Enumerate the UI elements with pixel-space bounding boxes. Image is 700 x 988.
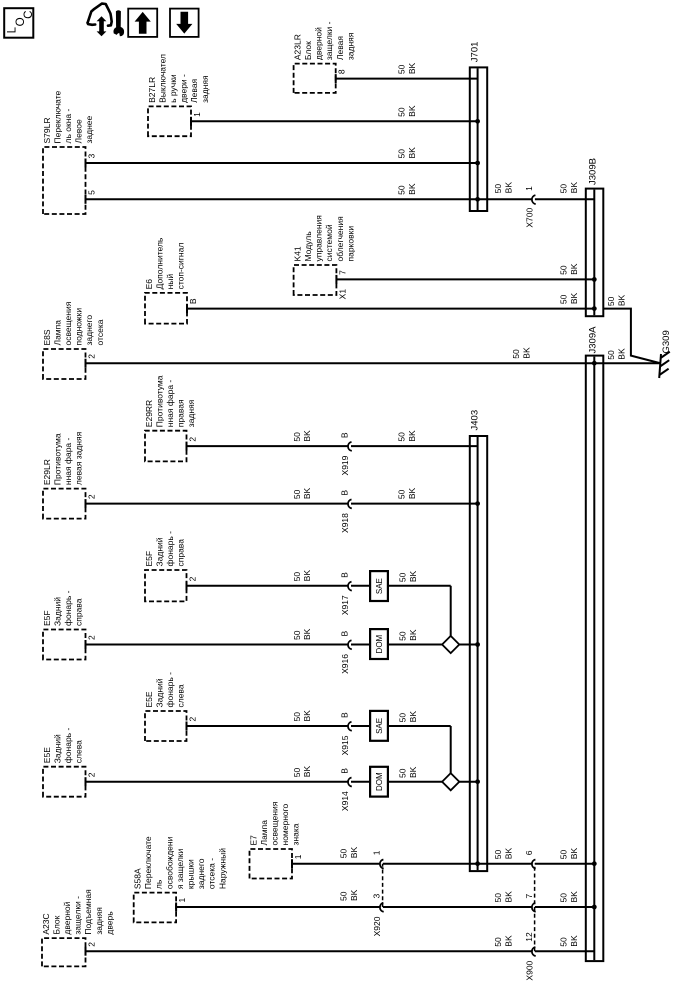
svg-text:50: 50 (493, 849, 503, 859)
svg-text:2: 2 (188, 437, 198, 442)
svg-text:Блок: Блок (303, 41, 313, 60)
svg-text:Противотума: Противотума (154, 375, 164, 427)
svg-text:BK: BK (569, 182, 579, 194)
svg-text:задняя: задняя (186, 399, 196, 427)
svg-text:50: 50 (397, 489, 407, 499)
svg-text:X919: X919 (340, 455, 350, 475)
svg-text:X920: X920 (372, 916, 382, 936)
svg-text:50: 50 (559, 184, 569, 194)
svg-text:3: 3 (87, 154, 97, 159)
svg-text:подножки: подножки (74, 308, 84, 346)
svg-text:Выключател: Выключател (157, 54, 167, 103)
svg-text:7: 7 (337, 270, 347, 275)
svg-text:BK: BK (408, 711, 418, 723)
svg-text:Задний: Задний (52, 734, 62, 763)
svg-text:B: B (188, 298, 198, 304)
svg-text:50: 50 (397, 107, 407, 117)
svg-text:фонарь -: фонарь - (63, 590, 73, 626)
svg-text:J309A: J309A (587, 326, 598, 354)
svg-text:ь ручки: ь ручки (168, 74, 178, 103)
svg-text:BK: BK (504, 891, 514, 903)
svg-text:задняя: задняя (345, 32, 355, 60)
svg-text:2: 2 (87, 354, 97, 359)
svg-text:50: 50 (559, 893, 569, 903)
svg-text:BK: BK (302, 766, 312, 778)
svg-text:нная фара -: нная фара - (165, 380, 175, 428)
svg-text:X915: X915 (340, 735, 350, 755)
svg-text:справа: справа (176, 539, 186, 567)
svg-text:SAE: SAE (375, 718, 384, 734)
svg-text:G309: G309 (661, 330, 672, 353)
svg-text:BK: BK (302, 710, 312, 722)
svg-text:50: 50 (339, 848, 349, 858)
svg-text:BK: BK (302, 570, 312, 582)
svg-text:6: 6 (524, 850, 534, 855)
svg-text:дверной: дверной (62, 901, 72, 934)
svg-text:фонарь -: фонарь - (165, 531, 175, 567)
svg-text:E29LR: E29LR (42, 459, 52, 485)
svg-text:Наружный: Наружный (217, 848, 227, 889)
svg-text:BK: BK (616, 348, 626, 360)
svg-text:Переключате: Переключате (143, 836, 153, 889)
svg-text:50: 50 (292, 432, 302, 442)
svg-text:левая задняя: левая задняя (74, 431, 84, 485)
svg-text:BK: BK (408, 570, 418, 582)
svg-text:управления: управления (314, 215, 324, 262)
svg-text:50: 50 (559, 937, 569, 947)
svg-text:DOM: DOM (375, 634, 384, 653)
svg-text:DOM: DOM (375, 772, 384, 791)
svg-text:50: 50 (292, 712, 302, 722)
svg-text:BK: BK (616, 294, 626, 306)
svg-text:я защелки: я защелки (175, 848, 185, 889)
svg-text:BK: BK (302, 628, 312, 640)
svg-text:50: 50 (397, 64, 407, 74)
svg-text:E5E: E5E (144, 691, 154, 707)
svg-text:слева: слева (176, 684, 186, 707)
svg-text:8: 8 (337, 69, 347, 74)
svg-text:1: 1 (177, 898, 187, 903)
svg-text:заднего: заднего (196, 858, 206, 889)
svg-text:S79LR: S79LR (42, 118, 52, 144)
svg-text:Лампа: Лампа (52, 320, 62, 346)
svg-text:50: 50 (397, 572, 407, 582)
svg-text:X900: X900 (524, 960, 534, 980)
svg-text:B27LR: B27LR (147, 77, 157, 103)
svg-text:J309B: J309B (587, 158, 598, 185)
svg-text:50: 50 (606, 296, 616, 306)
svg-text:Задний: Задний (154, 678, 164, 707)
svg-text:B: B (340, 432, 350, 438)
svg-text:50: 50 (292, 767, 302, 777)
svg-text:крышки: крышки (186, 859, 196, 889)
svg-text:ль: ль (154, 879, 164, 889)
svg-text:2: 2 (87, 772, 97, 777)
svg-text:задняя: задняя (94, 907, 104, 935)
svg-text:освобождени: освобождени (164, 836, 174, 889)
svg-text:2: 2 (87, 635, 97, 640)
svg-text:K41: K41 (292, 246, 302, 261)
svg-text:заднее: заднее (84, 115, 94, 143)
svg-text:B: B (340, 490, 350, 496)
svg-text:2: 2 (188, 576, 198, 581)
svg-text:ль окна -: ль окна - (63, 109, 73, 144)
svg-text:E5F: E5F (144, 551, 154, 567)
svg-text:2: 2 (188, 717, 198, 722)
svg-text:BK: BK (569, 263, 579, 275)
svg-text:BK: BK (407, 487, 417, 499)
svg-text:X1: X1 (337, 289, 347, 300)
svg-text:справа: справа (74, 598, 84, 626)
svg-text:BK: BK (569, 292, 579, 304)
svg-text:BK: BK (408, 766, 418, 778)
svg-text:BK: BK (504, 848, 514, 860)
svg-text:фонарь -: фонарь - (63, 728, 73, 764)
svg-text:50: 50 (397, 432, 407, 442)
svg-text:50: 50 (339, 891, 349, 901)
svg-text:50: 50 (397, 713, 407, 723)
svg-text:BK: BK (407, 62, 417, 74)
svg-text:X914: X914 (340, 791, 350, 811)
svg-text:50: 50 (292, 572, 302, 582)
svg-text:BK: BK (569, 848, 579, 860)
svg-text:Подъемная: Подъемная (83, 889, 93, 935)
svg-text:1: 1 (192, 112, 202, 117)
svg-text:3: 3 (372, 894, 382, 899)
svg-text:E7: E7 (248, 835, 258, 846)
svg-text:BK: BK (407, 183, 417, 195)
svg-text:E5E: E5E (42, 747, 52, 763)
svg-text:50: 50 (606, 350, 616, 360)
svg-text:BK: BK (569, 891, 579, 903)
svg-text:правая: правая (176, 399, 186, 427)
svg-text:1: 1 (524, 186, 534, 191)
svg-text:X918: X918 (340, 513, 350, 533)
svg-text:1: 1 (293, 854, 303, 859)
svg-text:освещения: освещения (63, 301, 73, 345)
svg-text:BK: BK (408, 629, 418, 641)
svg-text:5: 5 (87, 190, 97, 195)
svg-text:50: 50 (493, 893, 503, 903)
svg-text:B: B (340, 712, 350, 718)
svg-text:BK: BK (407, 430, 417, 442)
svg-text:C: C (22, 10, 35, 18)
svg-text:2: 2 (87, 942, 97, 947)
svg-text:50: 50 (559, 849, 569, 859)
svg-text:заднего: заднего (84, 315, 94, 346)
svg-text:Модуль: Модуль (303, 231, 313, 262)
svg-text:E6: E6 (144, 279, 154, 290)
svg-text:защелки -: защелки - (324, 21, 334, 60)
svg-text:50: 50 (397, 768, 407, 778)
svg-text:50: 50 (397, 631, 407, 641)
svg-text:парковки: парковки (345, 226, 355, 262)
svg-text:50: 50 (292, 489, 302, 499)
svg-text:L: L (6, 26, 19, 33)
svg-text:BK: BK (302, 487, 312, 499)
svg-text:SAE: SAE (375, 578, 384, 594)
svg-text:50: 50 (559, 265, 569, 275)
svg-text:BK: BK (504, 935, 514, 947)
svg-text:задняя: задняя (200, 75, 210, 103)
svg-text:50: 50 (493, 184, 503, 194)
svg-text:A23C: A23C (41, 913, 51, 934)
svg-text:E5F: E5F (42, 610, 52, 626)
svg-text:BK: BK (407, 147, 417, 159)
svg-text:B: B (340, 572, 350, 578)
svg-text:X700: X700 (524, 208, 534, 228)
svg-text:S58A: S58A (133, 868, 143, 889)
svg-text:Левая: Левая (335, 36, 345, 60)
svg-text:BK: BK (407, 105, 417, 117)
svg-text:BK: BK (302, 430, 312, 442)
svg-text:отсека -: отсека - (207, 858, 217, 889)
svg-text:Блок: Блок (51, 915, 61, 934)
svg-text:X917: X917 (340, 595, 350, 615)
svg-text:Левое: Левое (74, 119, 84, 143)
svg-text:E29RR: E29RR (144, 400, 154, 427)
svg-text:облегчения: облегчения (335, 216, 345, 262)
svg-text:B: B (340, 631, 350, 637)
svg-text:Лампа: Лампа (259, 820, 269, 846)
svg-text:J403: J403 (470, 410, 481, 431)
svg-text:BK: BK (569, 935, 579, 947)
svg-text:E8S: E8S (42, 329, 52, 345)
svg-text:7: 7 (524, 894, 534, 899)
svg-text:отсека: отсека (95, 319, 105, 345)
svg-text:дверь: дверь (104, 911, 114, 935)
svg-text:J701: J701 (470, 42, 481, 63)
svg-text:ный: ный (165, 274, 175, 290)
svg-text:Дополнитель: Дополнитель (154, 237, 164, 289)
svg-text:Задний: Задний (154, 537, 164, 566)
svg-text:фонарь -: фонарь - (165, 672, 175, 708)
svg-text:двери -: двери - (179, 74, 189, 103)
svg-text:50: 50 (397, 149, 407, 159)
svg-text:BK: BK (349, 847, 359, 859)
svg-text:X916: X916 (340, 654, 350, 674)
svg-text:знака: знака (291, 823, 301, 845)
svg-text:номерного: номерного (280, 803, 290, 845)
svg-text:защелки -: защелки - (73, 896, 83, 935)
svg-text:50: 50 (559, 294, 569, 304)
svg-text:Левая: Левая (189, 78, 199, 102)
svg-text:50: 50 (397, 185, 407, 195)
svg-text:12: 12 (524, 932, 534, 942)
svg-text:A23LR: A23LR (292, 34, 302, 60)
svg-text:BK: BK (504, 182, 514, 194)
svg-text:слева: слева (74, 740, 84, 763)
svg-text:Задний: Задний (52, 597, 62, 626)
svg-text:дверной: дверной (314, 27, 324, 60)
svg-text:освещения: освещения (270, 801, 280, 845)
svg-text:стоп-сигнал: стоп-сигнал (176, 243, 186, 290)
svg-text:нная фара -: нная фара - (63, 437, 73, 485)
svg-text:BK: BK (349, 889, 359, 901)
svg-text:2: 2 (87, 494, 97, 499)
svg-text:50: 50 (493, 937, 503, 947)
svg-text:50: 50 (292, 630, 302, 640)
svg-text:50: 50 (511, 349, 521, 359)
svg-text:Переключате: Переключате (52, 90, 62, 143)
svg-text:системой: системой (324, 224, 334, 261)
svg-text:B: B (340, 768, 350, 774)
svg-text:1: 1 (372, 850, 382, 855)
svg-text:Противотума: Противотума (52, 433, 62, 485)
svg-text:BK: BK (522, 347, 532, 359)
